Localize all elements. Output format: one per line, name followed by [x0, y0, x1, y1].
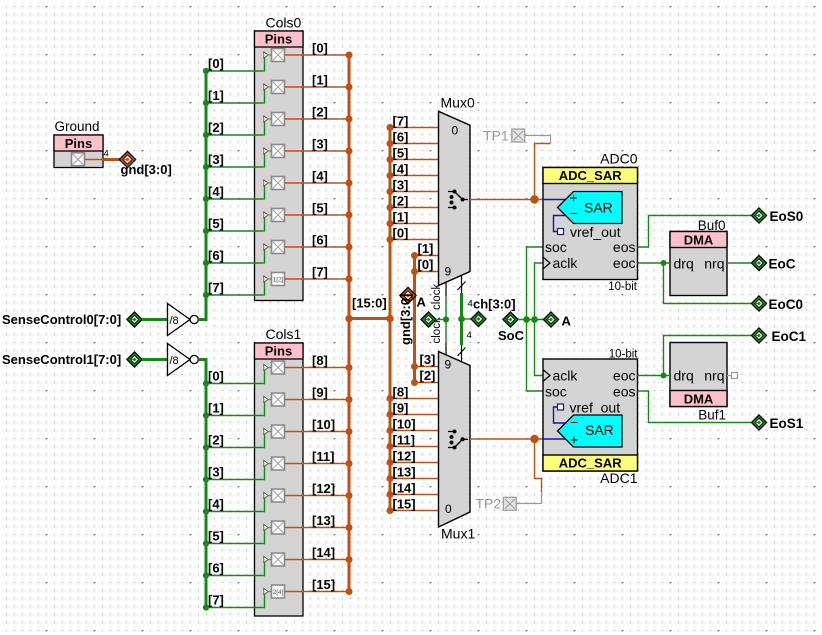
svg-text:EoC: EoC	[769, 257, 796, 272]
wire Cols1 output [15] to bus	[285, 588, 353, 595]
svg-text:[5]: [5]	[208, 529, 224, 544]
component Cols0 (Pins) body	[255, 15, 304, 301]
wire Mux1 input [15]	[387, 507, 439, 514]
wire Mux1 input [14]	[387, 491, 439, 498]
label Mux1 input [13]	[393, 465, 416, 480]
pin Cols1 [0]	[264, 361, 285, 374]
svg-text:[13]: [13]	[393, 465, 416, 480]
svg-text:DMA: DMA	[684, 392, 714, 407]
label Cols0 right [3]	[312, 137, 328, 152]
wire Cols0 input tap [1]	[203, 87, 272, 106]
svg-text:[0]: [0]	[208, 56, 224, 71]
pin Cols0 [4]	[264, 177, 285, 190]
label Cols1 left [6]	[208, 561, 224, 576]
label Cols1 left [3]	[208, 465, 224, 480]
terminal EoC	[751, 255, 795, 271]
label Mux1 input [12]	[393, 449, 416, 464]
svg-text:[11]: [11]	[312, 449, 334, 464]
svg-text:[3]: [3]	[420, 352, 436, 367]
svg-text:[10]: [10]	[393, 417, 416, 432]
svg-text:[1]: [1]	[312, 73, 328, 88]
svg-text:Cols1: Cols1	[266, 326, 302, 342]
wire Cols1 output [13] to bus	[285, 524, 353, 531]
svg-text:[9]: [9]	[312, 385, 328, 400]
wire Mux0 gnd input [1]	[411, 252, 439, 259]
svg-text:[12]: [12]	[312, 481, 335, 496]
svg-text:eos: eos	[613, 239, 636, 255]
label Mux0 input [6]	[393, 130, 409, 145]
label Mux1 input [10]	[393, 417, 416, 432]
svg-text:2[4]: 2[4]	[273, 589, 284, 596]
svg-text:+: +	[570, 190, 578, 206]
wire Cols0 output [2] to bus	[285, 116, 353, 123]
svg-text:[11]: [11]	[393, 433, 415, 448]
svg-text:SenseControl1[7:0]: SenseControl1[7:0]	[2, 352, 121, 367]
terminal A (analog clock)	[543, 312, 571, 329]
svg-text:[12]: [12]	[393, 449, 416, 464]
vref_out of ADC0	[554, 216, 621, 241]
wire gnd[3:0] bus vertical	[413, 256, 416, 383]
component ADC1 (ADC_SAR)	[543, 349, 638, 487]
svg-text:[14]: [14]	[393, 481, 416, 496]
svg-text:eoc: eoc	[613, 255, 636, 271]
wire Cols1 input tap [2]	[203, 432, 272, 451]
label Mux0 gnd input [1]	[418, 241, 434, 256]
terminal A (gnd bus)	[400, 287, 427, 309]
svg-text:vref_out: vref_out	[570, 400, 621, 416]
wire Cols1 output [8] to bus	[285, 364, 353, 371]
label Mux1 input [15]	[393, 497, 416, 512]
svg-text:clock: clock	[431, 284, 443, 310]
wire gnd bus from Ground to terminal	[103, 149, 121, 160]
svg-text:[8]: [8]	[393, 385, 409, 400]
svg-text:[4]: [4]	[312, 169, 328, 184]
svg-text:4: 4	[468, 299, 473, 310]
wire Mux1 input [12]	[387, 459, 439, 466]
component Buf1 (DMA)	[670, 343, 727, 423]
svg-text:[3]: [3]	[393, 178, 409, 193]
terminal SenseControl0[7:0]	[2, 312, 142, 327]
svg-text:[5]: [5]	[208, 216, 224, 231]
pin Cols0 [3]	[264, 145, 285, 158]
component Mux1 (AMux)	[439, 352, 476, 542]
wire Cols1 output [11] to bus	[285, 460, 353, 467]
wire inverter U3 output to Cols0 green bus	[198, 71, 206, 320]
inverter /8 U3	[168, 304, 199, 336]
svg-text:eoc: eoc	[613, 368, 636, 384]
wire Cols0 input tap [4]	[203, 183, 272, 202]
wire Cols0 output [1] to bus	[285, 84, 353, 91]
wire Mux0 input [6]	[387, 140, 439, 147]
wire Cols0 output [3] to bus	[285, 148, 353, 155]
svg-text:+: +	[570, 432, 578, 448]
label Cols0 right [6]	[312, 233, 328, 248]
op-amp SAR core of ADC0	[543, 190, 622, 224]
component Ground (Pins)	[54, 119, 103, 168]
label Cols0 left [6]	[208, 248, 224, 263]
terminal clock	[421, 312, 446, 327]
terminal SoC	[498, 312, 525, 343]
svg-text:[14]: [14]	[312, 545, 335, 560]
svg-text:Pins: Pins	[65, 136, 92, 151]
svg-text:0: 0	[452, 124, 459, 138]
svg-text:[1]: [1]	[393, 210, 409, 225]
wire Cols1 input tap [1]	[203, 400, 272, 419]
svg-text:nrq: nrq	[704, 368, 724, 384]
svg-text:soc: soc	[545, 239, 567, 255]
wire Mux1 input [10]	[387, 427, 439, 434]
terminal EoS1	[751, 415, 803, 431]
label Cols1 left [0]	[208, 369, 224, 384]
svg-text:[1]: [1]	[208, 401, 224, 416]
svg-text:9: 9	[445, 265, 452, 279]
svg-text:nrq: nrq	[704, 256, 724, 272]
label Cols1 right [9]	[312, 385, 328, 400]
svg-text:Mux1: Mux1	[441, 526, 475, 542]
ports of ADC0: soc aclk eos eoc	[544, 239, 636, 271]
svg-text:[2]: [2]	[393, 194, 409, 209]
label Cols0 right [1]	[312, 73, 328, 88]
label Cols0 right [2]	[312, 105, 328, 120]
inverter /8 U4	[168, 344, 199, 376]
svg-text:[1]: [1]	[208, 88, 224, 103]
wire Buf0 nrq to EoC	[727, 262, 751, 264]
wire Cols0 output [7] to bus	[285, 276, 353, 283]
svg-text:[6]: [6]	[208, 561, 224, 576]
terminal EoS0	[751, 208, 803, 224]
svg-text:[15]: [15]	[393, 497, 416, 512]
label Mux0 input [7]	[393, 114, 409, 129]
component Buf0 (DMA)	[670, 218, 727, 296]
wire ADC0 eoc to Buf0 drq	[638, 260, 671, 266]
label Cols0 left [5]	[208, 216, 224, 231]
svg-text:−: −	[570, 414, 578, 430]
svg-text:[10]: [10]	[312, 417, 335, 432]
svg-text:[2]: [2]	[312, 105, 328, 120]
label Cols0 left [0]	[208, 56, 224, 71]
svg-text:Pins: Pins	[265, 32, 292, 47]
svg-text:−: −	[570, 205, 578, 221]
wire Cols1 output [12] to bus	[285, 492, 353, 499]
svg-text:eos: eos	[613, 384, 636, 400]
svg-text:gnd[3:0]: gnd[3:0]	[398, 294, 413, 345]
wire clock vertical	[443, 296, 449, 343]
wire Cols0 output [4] to bus	[285, 180, 353, 187]
label Mux0 input [4]	[393, 162, 409, 177]
wire Cols1 output [14] to bus	[285, 556, 353, 563]
svg-text:ch[3:0]: ch[3:0]	[473, 297, 516, 312]
svg-text:soc: soc	[545, 384, 567, 400]
wire inverter U4 output to Cols1 green bus	[198, 360, 206, 608]
component Cols1 (Pins) body	[255, 326, 304, 616]
svg-text:SAR: SAR	[584, 200, 613, 216]
wire ADC1 eoc to Buf1 drq	[638, 373, 671, 379]
pin Cols1 [5]	[264, 521, 285, 534]
svg-text:ADC1: ADC1	[600, 470, 638, 486]
wire TP1 to ADC0 input	[525, 136, 551, 200]
wire Cols1 input tap [4]	[203, 496, 272, 515]
wire Cols0 input tap [6]	[203, 247, 272, 266]
svg-text:[15:0]: [15:0]	[352, 296, 387, 311]
pin Cols1 [1]	[264, 393, 285, 406]
svg-text:[0]: [0]	[208, 369, 224, 384]
wire Cols0 input tap [7]	[203, 279, 272, 298]
pin Cols1 [3]	[264, 457, 285, 470]
svg-text:/8: /8	[170, 355, 179, 367]
terminal EoC0	[751, 296, 803, 312]
svg-text:EoC1: EoC1	[772, 329, 807, 344]
svg-text:SAR: SAR	[585, 422, 614, 438]
wire Cols0 output [5] to bus	[285, 212, 353, 219]
label Cols1 right [11]	[312, 449, 334, 464]
svg-text:[4]: [4]	[208, 497, 224, 512]
label Cols0 left [2]	[208, 120, 224, 135]
terminal SenseControl1[7:0]	[2, 352, 142, 367]
wire Cols1 output [10] to bus	[285, 428, 353, 435]
svg-text:A: A	[562, 314, 572, 329]
wire Mux1 input [13]	[387, 475, 439, 482]
pin Mux1 select stub with width slash 4	[458, 330, 472, 362]
svg-text:drq: drq	[674, 368, 694, 384]
svg-text:[3]: [3]	[208, 465, 224, 480]
label Cols1 right [12]	[312, 481, 335, 496]
svg-text:0: 0	[445, 502, 452, 516]
svg-text:Cols0: Cols0	[266, 15, 302, 31]
label Mux0 gnd input [0]	[418, 257, 434, 272]
svg-text:[13]: [13]	[312, 513, 335, 528]
svg-text:[3]: [3]	[312, 137, 328, 152]
vref_out of ADC1	[554, 400, 621, 424]
label Cols0 left [4]	[208, 184, 224, 199]
pin Cols0 [7]	[264, 273, 285, 286]
svg-text:Buf1: Buf1	[698, 408, 726, 423]
pin Cols1 [4]	[264, 489, 285, 502]
wire Mux0 input [7]	[387, 124, 439, 131]
svg-text:[2]: [2]	[208, 120, 224, 135]
wire soc vertical to ADC0 and ADC1	[527, 247, 544, 391]
svg-text:4: 4	[467, 330, 472, 341]
svg-text:[6]: [6]	[208, 248, 224, 263]
wire SoC-A row	[518, 316, 544, 323]
svg-text:SoC: SoC	[498, 328, 525, 343]
svg-text:ADC0: ADC0	[600, 150, 638, 166]
svg-text:[7]: [7]	[208, 280, 224, 295]
wire Mux0 input [2]	[387, 204, 439, 211]
wire mux feed bus vertical	[389, 128, 392, 511]
label Mux1 input [8]	[393, 385, 409, 400]
label Mux1 input [11]	[393, 433, 415, 448]
wire eoc junction to EoC0	[664, 263, 752, 304]
test point TP2	[476, 496, 517, 512]
unconnected nrq stub of Buf1	[727, 373, 738, 379]
svg-text:[7]: [7]	[312, 265, 328, 280]
svg-text:4: 4	[104, 149, 109, 160]
svg-text:TP2: TP2	[476, 496, 502, 512]
label Cols1 right [13]	[312, 513, 335, 528]
wire Mux1 output to ADC1	[470, 435, 543, 443]
label Cols1 right [10]	[312, 417, 335, 432]
svg-text:ADC_SAR: ADC_SAR	[559, 168, 622, 183]
terminal EoC1	[751, 328, 806, 344]
wire Cols0 input tap [5]	[203, 215, 272, 234]
label Mux0 input [0]	[393, 226, 409, 241]
pin Cols0 [5]	[264, 209, 285, 222]
wire bus [15:0] vertical	[348, 55, 351, 592]
wire Mux0 input [5]	[387, 156, 439, 163]
pin Cols1 [2]	[264, 425, 285, 438]
label Cols1 left [1]	[208, 401, 224, 416]
label Mux1 gnd input [2]	[420, 368, 436, 383]
terminal gnd[3:0]	[119, 151, 171, 177]
wire Cols1 input tap [0]	[203, 368, 272, 387]
svg-text:9: 9	[445, 358, 452, 372]
pin Cols0 [0]	[264, 49, 285, 62]
label gnd[3:0] rotated	[398, 294, 413, 345]
wire Cols0 input tap [3]	[203, 151, 272, 170]
svg-text:[4]: [4]	[208, 184, 224, 199]
pin Mux1 clock stub	[431, 317, 446, 355]
label Mux1 input [9]	[393, 401, 409, 416]
op-amp SAR core of ADC1	[543, 414, 622, 448]
svg-text:EoS1: EoS1	[770, 416, 804, 431]
label Cols0 right [5]	[312, 201, 328, 216]
svg-text:EoS0: EoS0	[770, 209, 804, 224]
wire Mux0 input [4]	[387, 172, 439, 179]
wire bus [15:0] link to mux bus	[345, 315, 393, 322]
svg-text:Buf0: Buf0	[698, 218, 726, 233]
wire Mux0 gnd input [0]	[411, 268, 439, 275]
label Cols0 right [0]	[312, 41, 328, 56]
label Mux0 input [2]	[393, 194, 409, 209]
wire Cols1 input tap [3]	[203, 464, 272, 483]
svg-text:[2]: [2]	[208, 433, 224, 448]
wire aclk vertical to ADC0 and ADC1	[535, 263, 544, 376]
wire Mux0 input [0]	[387, 236, 439, 243]
wire Mux0 input [1]	[387, 220, 439, 227]
pin Cols0 [1]	[264, 81, 285, 94]
svg-text:[5]: [5]	[393, 146, 409, 161]
svg-text:EoC0: EoC0	[769, 297, 804, 312]
svg-text:[7]: [7]	[208, 593, 224, 608]
svg-text:10-bit: 10-bit	[608, 281, 638, 293]
svg-text:[5]: [5]	[312, 201, 328, 216]
svg-text:[6]: [6]	[312, 233, 328, 248]
pin Cols0 [6]	[264, 241, 285, 254]
svg-text:[1]: [1]	[418, 241, 434, 256]
wire ADC0 eos to EoS0	[638, 216, 752, 248]
label Cols0 left [1]	[208, 88, 224, 103]
label Mux1 gnd input [3]	[420, 352, 436, 367]
svg-text:[15]: [15]	[312, 577, 335, 592]
label Cols0 right [7]	[312, 265, 328, 280]
svg-text:Mux0: Mux0	[441, 95, 475, 111]
wire SenseControl1 to inverter U4	[142, 358, 168, 361]
label Cols1 left [2]	[208, 433, 224, 448]
label bus [15:0]	[352, 296, 387, 311]
svg-text:ADC_SAR: ADC_SAR	[559, 456, 622, 471]
terminal ch[3:0]	[462, 297, 516, 327]
wire Mux1 gnd input [3]	[411, 363, 439, 370]
wire Cols0 input tap [2]	[203, 119, 272, 138]
wire Cols0 output [6] to bus	[285, 244, 353, 251]
svg-text:[0]: [0]	[418, 257, 434, 272]
pin Cols1 [7]	[264, 585, 285, 598]
svg-text:[6]: [6]	[393, 130, 409, 145]
label Cols1 left [4]	[208, 497, 224, 512]
wire Cols0 input tap [0]	[203, 55, 272, 74]
label Cols1 right [15]	[312, 577, 335, 592]
wire Mux1 input [11]	[387, 443, 439, 450]
label Cols1 right [8]	[312, 353, 328, 368]
label Cols1 left [7]	[208, 593, 224, 608]
svg-text:TP1: TP1	[483, 128, 509, 144]
svg-text:gnd[3:0]: gnd[3:0]	[121, 162, 172, 177]
svg-text:/8: /8	[170, 315, 179, 327]
label Cols1 right [14]	[312, 545, 335, 560]
label Mux0 input [5]	[393, 146, 409, 161]
wire TP2 to ADC1 input	[516, 439, 541, 504]
test point TP1	[483, 128, 525, 144]
wire Cols1 input tap [5]	[203, 528, 272, 547]
wire Mux1 gnd input [2]	[411, 379, 439, 386]
svg-text:[8]: [8]	[312, 353, 328, 368]
wire Mux1 input [9]	[387, 411, 439, 418]
wire Mux0 input [3]	[387, 188, 439, 195]
pin Cols0 [2]	[264, 113, 285, 126]
component ADC0 (ADC_SAR)	[543, 150, 638, 293]
wire Mux0 output to ADC0	[470, 195, 543, 203]
svg-text:A: A	[417, 295, 427, 310]
label Cols0 right [4]	[312, 169, 328, 184]
label Cols0 left [7]	[208, 280, 224, 295]
pin Cols1 [6]	[264, 553, 285, 566]
pin Mux0 clock stub	[431, 282, 446, 310]
svg-text:SenseControl0[7:0]: SenseControl0[7:0]	[2, 312, 121, 327]
svg-text:[0]: [0]	[393, 226, 409, 241]
wire SenseControl0 to inverter U3	[142, 318, 168, 321]
label Mux0 input [1]	[393, 210, 409, 225]
ports of ADC1: aclk soc eoc eos	[544, 368, 636, 400]
wire Cols1 input tap [6]	[203, 560, 272, 579]
svg-text:[7]: [7]	[393, 114, 409, 129]
label Cols1 left [5]	[208, 529, 224, 544]
svg-text:[4]: [4]	[393, 162, 409, 177]
label Mux1 input [14]	[393, 481, 416, 496]
svg-text:aclk: aclk	[553, 368, 579, 384]
svg-text:DMA: DMA	[684, 233, 714, 248]
wire Cols1 input tap [7]	[203, 592, 272, 611]
svg-text:[0]: [0]	[312, 41, 328, 56]
svg-text:[3]: [3]	[208, 152, 224, 167]
wire eoc junction to EoC1	[664, 336, 752, 376]
wire ch[3:0] select bus vertical	[458, 293, 465, 345]
svg-text:[2]: [2]	[420, 368, 436, 383]
wire Mux1 input [8]	[387, 395, 439, 402]
label Cols0 left [3]	[208, 152, 224, 167]
wire Cols0 output [0] to bus	[285, 52, 353, 59]
svg-text:aclk: aclk	[553, 255, 579, 271]
pin Mux0 select stub with width slash 4	[458, 275, 473, 309]
label Mux0 input [3]	[393, 178, 409, 193]
svg-text:Pins: Pins	[265, 344, 292, 359]
wire ADC1 eos to EoS1	[638, 391, 752, 423]
svg-text:drq: drq	[674, 256, 694, 272]
svg-text:vref_out: vref_out	[570, 224, 621, 240]
wire Cols1 output [9] to bus	[285, 396, 353, 403]
svg-text:1[2]: 1[2]	[273, 277, 284, 284]
svg-text:[9]: [9]	[393, 401, 409, 416]
component Mux0 (AMux)	[439, 95, 475, 286]
